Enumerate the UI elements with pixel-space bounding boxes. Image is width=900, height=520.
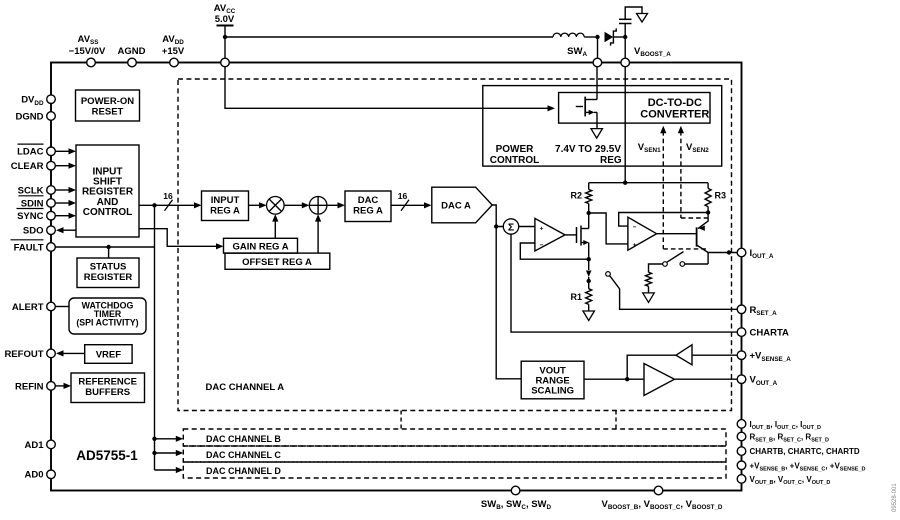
junction channel C tap: [152, 451, 156, 455]
pin AVss: [87, 58, 96, 67]
wire adder to DAC REG A: [327, 204, 339, 206]
summing node sigma: [503, 219, 518, 234]
pin VOUT_A: [737, 375, 746, 384]
pin REFIN: [47, 382, 56, 391]
power MOSFET M2: [576, 106, 583, 108]
svg-text:DAC CHANNEL C: DAC CHANNEL C: [206, 450, 281, 460]
block GAIN REG A: [224, 238, 298, 253]
svg-text:7.4V TO 29.5V: 7.4V TO 29.5V: [555, 144, 621, 155]
svg-text:SWB​, SWC​, SWD​: SWB​, SWC​, SWD​: [481, 499, 552, 511]
pin SDIN: [47, 199, 56, 208]
DAC CHANNEL D dashed box: [183, 462, 726, 478]
svg-text:AD0: AD0: [24, 470, 43, 481]
wire arrow into DAC CHANNEL C: [155, 452, 178, 454]
pin AD0: [47, 470, 56, 479]
wire boost rail R2 to R3: [589, 182, 708, 184]
dashed sense line VSEN2: [680, 131, 682, 218]
svg-text:16: 16: [163, 191, 173, 201]
junction data bus: [152, 203, 156, 207]
block STATUS REGISTER: [77, 258, 139, 288]
pin RSET_B/C/D: [737, 432, 746, 441]
wire +VSENSE_A pin to A4: [692, 354, 737, 356]
pin LDAC: [47, 147, 56, 156]
junction M1 source node: [587, 257, 591, 261]
block WATCHDOG TIMER (SPI ACTIVITY): [69, 298, 146, 334]
svg-text:RESET: RESET: [92, 107, 124, 118]
svg-text:REFOUT: REFOUT: [4, 349, 43, 360]
svg-text:REG A: REG A: [210, 205, 240, 216]
sense buffer A4: [676, 345, 692, 365]
block POWER CONTROL: [483, 86, 722, 167]
bus slash 16 (DAC): [401, 200, 409, 211]
pin SW_A: [593, 58, 602, 67]
wire multiplier to adder: [284, 204, 303, 206]
switch SW2 (Rset select) contact: [606, 272, 611, 277]
bus slash 16: [165, 200, 173, 211]
pin +VSENSE_B/C/D: [737, 461, 746, 470]
pin IOUT_B/C/D: [737, 420, 746, 429]
junction buffer input node: [625, 377, 629, 381]
wire Vdac node down to VOUT RANGE SCALING: [496, 227, 521, 379]
svg-text:BUFFERS: BUFFERS: [85, 387, 130, 398]
junction channel B tap: [152, 437, 156, 441]
svg-text:R3: R3: [715, 190, 727, 200]
capacitor C1: [624, 24, 626, 38]
svg-text:AD1: AD1: [24, 440, 44, 451]
svg-text:Σ: Σ: [508, 222, 514, 234]
svg-text:VREF: VREF: [96, 350, 122, 361]
svg-text:POWER: POWER: [496, 144, 535, 155]
output buffer A3: [644, 364, 675, 396]
junction FAULT-status: [106, 245, 110, 249]
junction R3 bottom: [706, 210, 710, 214]
block REFERENCE BUFFERS: [71, 373, 145, 403]
pin AVcc (on border): [221, 58, 230, 67]
wire A4 output to buffer input node: [627, 355, 676, 379]
dashed stack stub right: [615, 411, 617, 430]
pin ALERT: [47, 302, 56, 311]
pin VBOOST_B/C/D: [654, 486, 663, 495]
resistor R1: [586, 289, 592, 305]
svg-text:5.0V: 5.0V: [215, 14, 235, 25]
resistor R3: [707, 183, 709, 189]
junction SW node: [595, 35, 599, 39]
svg-text:SYNC: SYNC: [17, 211, 44, 222]
svg-text:SCLK: SCLK: [18, 185, 44, 196]
svg-text:CONTROL: CONTROL: [490, 155, 539, 166]
wire ALERT to watchdog timer: [55, 306, 69, 308]
wire M2 drain to SW_A pin: [596, 67, 598, 100]
svg-text:SDIN: SDIN: [21, 198, 44, 209]
svg-text:AGND: AGND: [118, 46, 146, 57]
svg-text:REFERENCE: REFERENCE: [78, 377, 137, 388]
wire INPUT REG A to multiplier: [249, 204, 261, 206]
DAC CHANNEL A dashed box: [178, 79, 732, 411]
wire switch to internal resistor R4: [649, 264, 663, 272]
junction Vdac node: [494, 224, 498, 228]
svg-text:CHARTA: CHARTA: [750, 328, 790, 339]
svg-text:DAC A: DAC A: [441, 201, 471, 212]
svg-text:ALERT: ALERT: [12, 302, 44, 313]
wire arrow into DAC CHANNEL B: [155, 438, 178, 440]
svg-text:GAIN REG A: GAIN REG A: [232, 242, 288, 253]
svg-text:REG A: REG A: [353, 205, 383, 216]
svg-text:SCALING: SCALING: [531, 386, 574, 397]
svg-text:REGISTER: REGISTER: [84, 272, 133, 283]
pin AD1: [47, 440, 56, 449]
svg-text:LDAC: LDAC: [17, 147, 44, 158]
wire feedback to A1 inverting input: [520, 243, 588, 259]
svg-text:CLEAR: CLEAR: [11, 161, 44, 172]
pin SYNC: [47, 211, 56, 220]
switch SW2 lever and wire to RSET_A: [610, 276, 738, 310]
wire VBOOST_A pin down to rail: [624, 67, 626, 183]
svg-text:REG: REG: [600, 155, 622, 166]
junction R2 bottom: [587, 211, 591, 215]
pin CHARTA: [737, 328, 746, 337]
wire capacitor to ground: [625, 7, 642, 19]
svg-text:REFIN: REFIN: [15, 381, 44, 392]
schottky diode D1: [605, 32, 614, 43]
svg-text:−: −: [540, 242, 544, 249]
op-amp A1: [535, 218, 565, 251]
output MOSFET M1: [576, 227, 578, 243]
ground (regulator): [591, 129, 603, 139]
junction Vboost node: [623, 35, 627, 39]
dashed sense line VSEN1: [662, 131, 664, 249]
wire DAC REG A to DAC A (16-bit bus): [391, 204, 426, 206]
svg-text:CONTROL: CONTROL: [83, 207, 132, 218]
svg-text:FAULT: FAULT: [14, 242, 44, 253]
transistor Q1: [696, 227, 698, 246]
wire sigma to op-amp A1: [519, 226, 535, 228]
wire GAIN REG A up to multiplier: [274, 220, 276, 239]
junction IOUT sense tap: [727, 250, 731, 254]
svg-text:−: −: [633, 224, 637, 231]
wire Vboost node down to VBOOST_A pin: [624, 37, 626, 58]
pin AGND: [128, 58, 137, 67]
wire M2 source to ground: [596, 112, 598, 128]
svg-text:DC-TO-DC: DC-TO-DC: [648, 97, 702, 109]
wire SW node down to SW_A pin: [597, 37, 599, 58]
svg-text:R2: R2: [570, 190, 582, 200]
wire REFIN to reference buffers: [55, 385, 64, 387]
ground (R4): [643, 293, 655, 303]
block POWER-ON RESET: [76, 90, 140, 121]
wire inductor to SW node: [584, 36, 597, 38]
pin CHARTB/C/D: [737, 447, 746, 456]
wire Q1 collector down to range switch: [707, 253, 709, 265]
svg-text:AD5755-1: AD5755-1: [76, 448, 138, 463]
svg-text:DAC CHANNEL A: DAC CHANNEL A: [206, 382, 285, 393]
multiplier (gain): [267, 197, 285, 215]
svg-text:16: 16: [398, 191, 408, 201]
wire source node down through R1: [588, 259, 590, 270]
switch SW1 lever: [667, 252, 684, 263]
pin SDO: [47, 226, 56, 235]
wire junction down to status register: [108, 247, 110, 258]
svg-text:(SPI ACTIVITY): (SPI ACTIVITY): [76, 318, 138, 328]
svg-text:DAC CHANNEL D: DAC CHANNEL D: [206, 466, 281, 476]
wire Q1 collector to IOUT_A pin: [708, 252, 737, 254]
wire AVcc down to junction: [224, 26, 226, 63]
wire R2 bottom to A2 non-inverting input: [589, 213, 628, 244]
svg-text:DGND: DGND: [16, 111, 44, 122]
wire M1 source down to sense node: [588, 243, 590, 260]
pin VBOOST_A: [621, 58, 630, 67]
wire diode to Vboost node: [613, 36, 625, 38]
wire top rail from AVcc to inductor: [225, 36, 553, 38]
adder (offset): [309, 197, 327, 215]
block DC-TO-DC CONVERTER (regulator box): [559, 93, 710, 124]
dashed stack stub left: [400, 411, 402, 430]
pin IOUT_A: [737, 248, 746, 257]
wire arrow into DAC CHANNEL D: [155, 469, 178, 471]
wire A2 output to Q1 base: [657, 233, 697, 235]
svg-text:+15V: +15V: [162, 46, 185, 57]
chip outline AD5755-1: [51, 63, 742, 491]
pin +VSENSE_A: [737, 351, 746, 360]
wire A1 output to M1 gate: [565, 234, 577, 236]
wire switch right contact: [685, 263, 709, 265]
ground (R1): [583, 311, 595, 321]
wire ISR to INPUT REG A (16-bit bus): [139, 204, 196, 206]
block VOUT RANGE SCALING: [521, 361, 584, 399]
ground (top right): [637, 14, 648, 23]
wire AVcc pin down and right to regulator: [225, 67, 548, 109]
block INPUT SHIFT REGISTER AND CONTROL: [76, 145, 139, 237]
resistor R2: [588, 183, 590, 190]
pin CLEAR: [47, 161, 56, 170]
pin DVDD: [47, 95, 56, 104]
block OFFSET REG A: [225, 253, 330, 269]
inductor L1: [553, 33, 584, 37]
svg-text:POWER-ON: POWER-ON: [81, 96, 134, 107]
wire GAIN REG A feed from ISR: [139, 229, 218, 247]
wire FAULT to bus: [55, 246, 154, 248]
svg-text:R1: R1: [570, 292, 582, 302]
wire M1 drain up to R2 bottom: [588, 213, 590, 229]
svg-text:−15V/0V: −15V/0V: [69, 46, 106, 57]
junction R1 top node: [587, 279, 591, 283]
svg-text:SDO: SDO: [23, 226, 44, 237]
pin VOUT_B/C/D: [737, 475, 746, 484]
pin SW_B/C/D: [511, 486, 520, 495]
junction AVcc-top-rail: [223, 35, 227, 39]
pin RSET_A: [737, 305, 746, 314]
svg-text:CONVERTER: CONVERTER: [640, 109, 709, 121]
wire A3 to VOUT_A pin: [675, 378, 738, 380]
pin AVdd: [170, 58, 179, 67]
wire DAC A output to summing node: [492, 205, 503, 227]
block DAC REG A: [345, 191, 391, 222]
wire bus down to channels B C D: [154, 205, 156, 470]
op-amp A2: [628, 217, 657, 250]
svg-text:+: +: [540, 225, 544, 232]
pin SCLK: [47, 186, 56, 195]
DAC CHANNEL B dashed box: [183, 429, 726, 446]
switch SW1 (range) contacts: [680, 262, 685, 267]
svg-text:09528-001: 09528-001: [892, 483, 898, 512]
block VREF: [85, 345, 132, 364]
DAC A pentagon: [432, 187, 492, 223]
pin DGND: [47, 112, 56, 121]
svg-text:OFFSET REG A: OFFSET REG A: [242, 257, 312, 268]
svg-text:CHARTB, CHARTC, CHARTD: CHARTB, CHARTC, CHARTD: [750, 447, 860, 456]
resistor R4: [646, 272, 652, 286]
svg-text:STATUS: STATUS: [90, 262, 127, 273]
DAC CHANNEL C dashed box: [183, 446, 726, 462]
pin REFOUT: [47, 349, 56, 358]
wire R3 bottom to A2 inverting input: [619, 213, 708, 227]
wire VREF to REFOUT: [62, 352, 85, 354]
block INPUT REG A: [202, 191, 249, 221]
wire sigma node to CHARTA pin: [511, 234, 737, 332]
wire OFFSET REG A up to adder: [317, 220, 319, 254]
junction boost rail: [623, 181, 627, 185]
pin FAULT: [47, 243, 56, 252]
wire scaling block to output buffer: [584, 378, 644, 380]
svg-text:+: +: [633, 242, 637, 249]
svg-text:DAC CHANNEL B: DAC CHANNEL B: [206, 434, 281, 444]
AVcc supply terminal bar: [217, 25, 234, 27]
